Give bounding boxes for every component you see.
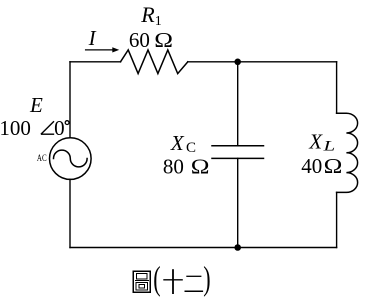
wire left upper vertical [69, 62, 71, 138]
current arrow I shaft [86, 49, 113, 51]
svg-text:X: X [308, 130, 323, 154]
svg-text:100: 100 [0, 116, 31, 140]
degree symbol [65, 121, 69, 125]
capacitor XC top plate [212, 145, 264, 147]
wire top middle [188, 61, 238, 63]
svg-text:40: 40 [301, 154, 322, 178]
angle symbol [41, 121, 54, 134]
svg-text:L: L [322, 137, 335, 153]
caption glyph SHI (ten) [163, 269, 183, 294]
svg-text:R1: R1 [140, 2, 161, 29]
svg-text:Ω: Ω [324, 155, 343, 179]
caption glyph TU (figure) [133, 271, 150, 292]
svg-text:XC: XC [170, 131, 196, 156]
wire top-left horizontal [70, 61, 121, 63]
svg-text:0: 0 [54, 116, 65, 140]
caption glyph ER (two) [185, 276, 204, 291]
svg-text:): ) [203, 260, 210, 298]
svg-text:I: I [88, 26, 97, 50]
resistor R1 [121, 50, 188, 74]
svg-text:80: 80 [163, 155, 184, 179]
junction node bottom [234, 244, 241, 251]
wire top right [238, 61, 337, 63]
wire right lower vertical [336, 192, 338, 247]
current arrow I head [112, 47, 119, 52]
wire right upper vertical [336, 62, 338, 113]
capacitor branch lower wire [237, 158, 239, 247]
wire bottom [70, 247, 337, 249]
junction node top [234, 59, 241, 66]
voltage source E circle [50, 138, 92, 180]
svg-text:60: 60 [129, 28, 150, 52]
inductor XL [337, 113, 358, 192]
svg-text:AC: AC [37, 153, 47, 163]
svg-text:Ω: Ω [154, 29, 173, 53]
svg-text:(: ( [153, 260, 160, 298]
svg-text:Ω: Ω [191, 155, 210, 179]
capacitor branch upper wire [237, 62, 239, 146]
svg-text:E: E [29, 93, 43, 117]
voltage source sine wave [54, 150, 88, 167]
wire left lower vertical [69, 179, 71, 247]
capacitor XC bottom plate [212, 157, 264, 159]
